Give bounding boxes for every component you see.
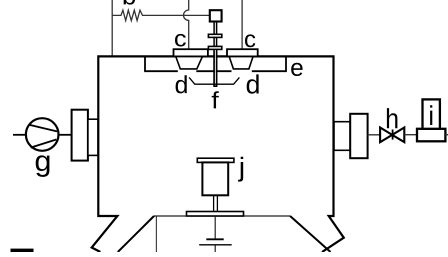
gauge i body — [417, 129, 445, 142]
battery plate short — [206, 238, 223, 240]
pump g circle — [26, 118, 59, 151]
wire gauge to edge — [445, 134, 448, 136]
electrode block c right — [227, 49, 258, 56]
pump g stub right — [59, 134, 72, 136]
label b — [124, 0, 136, 5]
gauge i head — [423, 99, 440, 128]
stage j body — [202, 162, 228, 195]
cut label mark bottom left — [11, 249, 34, 252]
left flange inner — [88, 119, 98, 155]
wire valve to gauge — [404, 134, 417, 136]
label h — [387, 108, 398, 128]
feedthrough box — [210, 10, 222, 21]
wire to right electrode — [241, 0, 243, 49]
filament bracket f — [189, 77, 239, 84]
battery lead upper — [214, 216, 216, 238]
right flange outer — [350, 114, 367, 158]
pump g vane upper — [29, 125, 57, 132]
chamber floor line — [154, 215, 290, 217]
label j — [238, 157, 243, 182]
pump wall below floor — [155, 217, 157, 253]
resistor b — [112, 10, 210, 20]
rod f shaft — [214, 22, 217, 87]
rod through lid (redraw over band) — [214, 49, 217, 86]
battery plate long — [199, 244, 232, 246]
label d left — [176, 75, 187, 93]
insulator d right — [229, 57, 253, 69]
label i — [430, 105, 432, 125]
label f — [212, 91, 219, 108]
rod collar upper — [208, 34, 221, 37]
right flange inner — [334, 122, 350, 151]
wire with hop to left electrode — [184, 0, 189, 49]
valve h — [380, 128, 404, 143]
floor opening slant right — [290, 216, 330, 252]
floor opening slant left — [118, 216, 154, 252]
label c left — [175, 34, 186, 47]
label d right — [247, 74, 259, 93]
stage j base plate — [187, 212, 244, 217]
label g — [36, 155, 50, 177]
rod f tip — [213, 85, 217, 87]
wire flange to valve — [368, 134, 381, 136]
battery lead lower — [214, 245, 216, 252]
chamber outline — [92, 56, 344, 252]
left flange outer — [72, 110, 88, 161]
stage j top plate — [197, 158, 234, 162]
label c right — [245, 34, 255, 47]
wire left vertical to lid — [111, 0, 113, 56]
pump g vane lower — [31, 140, 57, 148]
electrode block c left — [174, 49, 208, 56]
stage j stem — [214, 195, 218, 211]
rod collar lower — [208, 46, 221, 49]
label e — [291, 63, 302, 76]
lid band e — [144, 56, 287, 71]
insulator d left — [176, 57, 203, 69]
pump g stub left — [13, 134, 26, 136]
